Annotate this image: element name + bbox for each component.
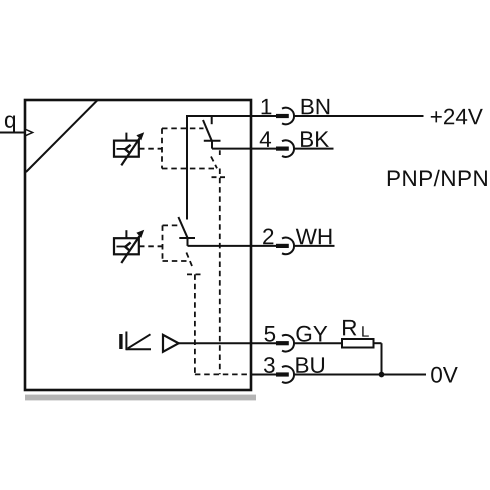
label BN (302, 99, 330, 114)
pin number 2 (263, 228, 273, 244)
wire supply vertical (186, 115, 188, 220)
connector pin 1 (276, 108, 294, 125)
dashed vertical link from S1 to 0V rail (219, 169, 221, 375)
connector pin 2 (276, 238, 294, 255)
label q (5, 115, 15, 132)
wire corner down to 0V line (381, 343, 383, 374)
pin number 4 (260, 131, 271, 146)
wire q input (0, 132, 26, 134)
pressure element P2 (adjustable) (114, 230, 144, 263)
switch S2 (178, 217, 195, 246)
resistor RL (342, 339, 374, 348)
wire WH stub (294, 245, 334, 247)
op-amp (output amplifier) (163, 335, 179, 352)
connector pin 5 (276, 335, 294, 352)
wire BK stub (294, 148, 333, 150)
connector pin 4 (276, 140, 294, 157)
dashed linkage frame 1 (162, 128, 217, 168)
dashed link P2 to latch (139, 245, 163, 247)
ramp symbol (126, 332, 151, 351)
label RL (343, 320, 356, 335)
label BU (296, 357, 324, 373)
label BK (301, 131, 329, 146)
switch S2 linkage dashes (186, 253, 201, 275)
connector pin 3 (276, 366, 294, 383)
dashed link P1 to latch (139, 148, 162, 150)
dashed linkage frame 2 (163, 225, 187, 261)
wire pin3 internal (250, 374, 276, 376)
label PNP/NPN (388, 170, 487, 187)
pin number 5 (265, 326, 276, 342)
label WH (296, 229, 332, 244)
sensor body shadow (25, 395, 256, 401)
junction dot (379, 372, 385, 378)
pin number 1 (262, 99, 272, 114)
label I (analog output) (119, 334, 122, 349)
switch S1 (203, 116, 221, 149)
label GY (296, 326, 327, 342)
wire GY to resistor (294, 342, 342, 344)
dashed vertical link from S2 to 0V rail (194, 274, 196, 374)
wire pin2 internal (188, 245, 277, 247)
pin number 3 (264, 357, 275, 373)
sensor body box (25, 100, 251, 390)
switch S1 linkage dashes (211, 150, 226, 177)
wire pin5 internal (179, 342, 277, 344)
corner diagonal (26, 100, 98, 172)
wire BN to +24V (294, 115, 423, 117)
wire BU to 0V (294, 374, 426, 376)
label +24V (431, 109, 483, 125)
wire resistor to corner (374, 342, 382, 344)
dashed 0V rail internal (195, 373, 250, 375)
wire pin1 internal (187, 115, 276, 117)
q arrowhead (25, 129, 32, 135)
pressure element P1 (adjustable) (114, 132, 144, 165)
wire pin4 internal (212, 148, 276, 150)
label 0V (431, 367, 458, 383)
